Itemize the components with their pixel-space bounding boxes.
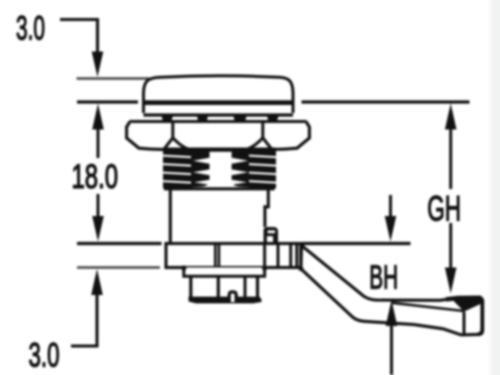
extension line under-head left (y102) [77, 100, 138, 103]
arrowhead up (GH top) [445, 104, 457, 130]
spring groove wedge right 1 [232, 158, 249, 164]
cam end right edge thick [478, 300, 482, 335]
spring groove wedge left 1 [193, 158, 210, 164]
arrowhead up (bottom 3.0) [91, 269, 103, 295]
cam arm outline [301, 246, 483, 335]
lower flange [184, 268, 265, 277]
band vertical x264 [263, 244, 266, 268]
extension line panel-top right / BH top (y243.5) [302, 242, 411, 245]
svg-text:3.0: 3.0 [16, 10, 45, 48]
cap inner line 1 [217, 276, 220, 299]
lock body right edge with step [265, 190, 268, 227]
junction dot left [181, 265, 186, 270]
arrowhead down (GH bottom) [445, 268, 457, 294]
nut facet divider left with Y-split [164, 122, 193, 151]
hex nut right wing [271, 122, 309, 150]
svg-text:GH: GH [427, 189, 461, 229]
pawl hook inner white [267, 236, 273, 243]
nut facet divider right with Y-split [244, 122, 273, 151]
svg-text:18.0: 18.0 [72, 158, 119, 196]
junction dot arm bottom-left [298, 266, 303, 271]
extension line under-head right (y102) [302, 100, 470, 103]
spring groove wedge left 2 [193, 169, 210, 175]
arrowhead up (18.0 top) [92, 104, 104, 130]
knurl tick 4 [267, 116, 279, 122]
18.0 dimension line lower shaft [97, 194, 100, 218]
spring groove wedge right 2 [232, 169, 249, 175]
thread bottom edge [164, 187, 275, 190]
extension line upper (y78.5) [77, 77, 150, 80]
18.0 dimension line upper shaft [97, 128, 100, 158]
cam top back edge [392, 303, 464, 311]
svg-text:BH: BH [369, 259, 398, 296]
nut middle facet bottom [192, 149, 245, 152]
svg-text:3.0: 3.0 [29, 337, 60, 375]
spring center white column with flared base [193, 152, 250, 189]
knurl tick 3 [234, 116, 247, 122]
band vertical x290 [289, 244, 292, 268]
BH lower shaft [390, 324, 393, 375]
spring groove wedge right 3 [232, 180, 248, 185]
bottom cap outline [191, 276, 258, 299]
pawl hook notch white [268, 230, 275, 233]
arrowhead down (top 3.0) [92, 52, 104, 78]
GH dimension line lower shaft [449, 223, 452, 270]
cap inner line 2 [244, 276, 247, 299]
junction dot arm top-left [300, 243, 305, 248]
extension line panel-top left (y243.5) [77, 242, 162, 245]
knurl tick 2 [197, 116, 208, 122]
band vertical x278 [277, 244, 280, 268]
arrowhead down (BH top) [385, 216, 397, 242]
head dome bottom edge [144, 113, 294, 116]
cam end face left edge [463, 312, 466, 335]
threaded neck black mass [163, 148, 276, 189]
arrowhead down (18.0 bottom) [92, 216, 104, 242]
leader line for bottom 3.0 [71, 293, 97, 346]
cap thick bottom edge [189, 297, 262, 304]
hex nut top edge [130, 120, 307, 123]
pawl hook [264, 227, 279, 244]
extension line panel-bottom left (y267.5) [77, 266, 160, 269]
band vertical x296 [295, 244, 298, 268]
cam end top wedge fill [453, 297, 482, 312]
cam end thick top edge [446, 298, 481, 300]
spring groove wedge left 3 [194, 180, 210, 185]
mount band outline [166, 244, 301, 268]
hex nut left wing [127, 122, 165, 150]
GH dimension line upper shaft [449, 128, 452, 189]
page background gray strip (right edge) [487, 0, 500, 375]
latch head dome outline [144, 76, 294, 113]
head skirt thick band [144, 100, 294, 105]
BH upper shaft [389, 195, 392, 218]
junction dot right [262, 265, 267, 270]
cap retaining notch [229, 292, 236, 302]
thread grooves right block [249, 156, 276, 183]
arrowhead up (BH bottom) [386, 300, 398, 326]
band vertical pair center [215, 244, 219, 268]
lock body left edge [169, 190, 172, 244]
leader line for top 3.0 [60, 20, 98, 53]
thread grooves left block [163, 156, 191, 183]
knurl tick 1 [162, 116, 174, 122]
